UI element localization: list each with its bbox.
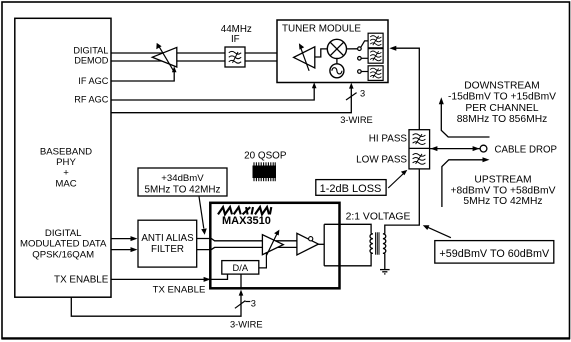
svg-text:3: 3 xyxy=(251,299,256,309)
logo: MAXIM xyxy=(218,207,271,227)
svg-text:MAC: MAC xyxy=(55,178,76,189)
op-amp: tuner RF amplifier xyxy=(294,43,315,71)
svg-text:3-WIRE: 3-WIRE xyxy=(230,319,263,329)
svg-text:2:1 VOLTAGE: 2:1 VOLTAGE xyxy=(346,212,411,223)
svg-text:MODULATED DATA: MODULATED DATA xyxy=(20,238,107,249)
filter: SAW filter 2 xyxy=(368,49,383,64)
svg-text:PER CHANNEL: PER CHANNEL xyxy=(465,103,539,114)
svg-text:+8dBmV TO +58dBmV: +8dBmV TO +58dBmV xyxy=(451,185,556,196)
wire: digital demod differential pair xyxy=(111,53,296,61)
svg-text:D/A: D/A xyxy=(233,263,249,273)
svg-text:UPSTREAM: UPSTREAM xyxy=(474,175,531,186)
callout: +59dBmV box xyxy=(423,225,554,263)
wire: upstream flow arrow xyxy=(442,157,490,207)
wire: amp output rails xyxy=(318,224,371,265)
svg-text:DIGITAL: DIGITAL xyxy=(73,45,108,55)
filter: diplexer hi pass / low pass xyxy=(356,130,429,169)
svg-text:TX ENABLE: TX ENABLE xyxy=(153,285,206,296)
wire: tuner amp to mixer xyxy=(315,49,327,57)
D/A converter xyxy=(222,252,267,274)
wire: transformer secondary to low pass filter xyxy=(385,169,420,234)
wire: tuner 3-wire bus xyxy=(111,83,373,125)
svg-text:5MHz TO 42MHz: 5MHz TO 42MHz xyxy=(145,184,221,195)
svg-text:3-WIRE: 3-WIRE xyxy=(340,115,373,125)
svg-text:+: + xyxy=(63,168,69,179)
svg-text:+59dBmV TO 60dBmV: +59dBmV TO 60dBmV xyxy=(439,248,550,260)
baseband PHY/MAC block U2 xyxy=(15,18,111,297)
svg-text:TX ENABLE: TX ENABLE xyxy=(54,275,109,286)
wire: filter to MAX3510 differential traces xyxy=(197,239,297,250)
local oscillator xyxy=(330,59,344,78)
svg-text:-15dBmV TO +15dBmV: -15dBmV TO +15dBmV xyxy=(448,92,556,103)
label: 2:1 voltage transformer ratio xyxy=(346,212,411,223)
svg-text:20 QSOP: 20 QSOP xyxy=(244,151,287,162)
svg-text:FILTER: FILTER xyxy=(151,244,184,255)
svg-text:88MHz TO 856MHz: 88MHz TO 856MHz xyxy=(457,114,548,125)
wire: TX enable xyxy=(111,274,228,296)
wire: cable drop connection xyxy=(430,146,480,151)
op-amp: IF variable gain amplifier xyxy=(152,43,177,71)
svg-text:ANTI ALIAS: ANTI ALIAS xyxy=(141,233,194,244)
svg-text:3: 3 xyxy=(360,89,365,99)
svg-text:1-2dB LOSS: 1-2dB LOSS xyxy=(320,183,382,195)
svg-text:+34dBmV: +34dBmV xyxy=(161,173,204,184)
svg-text:CABLE DROP: CABLE DROP xyxy=(495,145,557,156)
wire: hi-pass to tuner filters xyxy=(389,46,419,130)
callout: 1-2dB loss xyxy=(316,170,408,195)
wire: IF AGC xyxy=(111,66,177,81)
tuner module block xyxy=(277,20,388,83)
op-amp: MAX3510 variable gain amp xyxy=(262,230,283,256)
wire: D/A 3-wire bus xyxy=(71,274,262,329)
svg-text:IF AGC: IF AGC xyxy=(78,76,108,86)
ground xyxy=(380,253,390,274)
svg-text:5MHz TO 42MHz: 5MHz TO 42MHz xyxy=(463,196,542,207)
label: downstream levels xyxy=(448,81,556,125)
op-amp: MAX3510 output driver xyxy=(297,233,319,255)
wire: RF AGC xyxy=(111,82,317,100)
svg-text:IF: IF xyxy=(231,34,240,45)
filter FL1: 44MHz IF bandpass xyxy=(221,24,252,67)
wire: downstream flow arrow xyxy=(439,97,490,137)
wire: data lines into anti alias filter xyxy=(111,236,138,252)
svg-text:HI PASS: HI PASS xyxy=(369,134,408,145)
label: upstream levels xyxy=(451,175,556,208)
IC U1: MAX3510 block xyxy=(210,203,339,288)
mixer xyxy=(327,39,346,58)
label: 20 QSOP package xyxy=(244,151,287,182)
switch S1 contacts xyxy=(358,41,369,73)
svg-text:DEMOD: DEMOD xyxy=(74,55,109,65)
svg-text:PHY: PHY xyxy=(56,157,76,168)
filter: anti alias xyxy=(138,220,197,267)
wire: mixer to switch xyxy=(347,48,358,50)
transformer T1 xyxy=(370,232,386,254)
svg-text:DOWNSTREAM: DOWNSTREAM xyxy=(464,81,540,92)
svg-text:MAX3510: MAX3510 xyxy=(222,215,271,227)
callout: +34dBmV box xyxy=(138,168,227,235)
filter: SAW filter 3 xyxy=(368,66,383,81)
svg-text:LOW PASS: LOW PASS xyxy=(356,155,407,166)
svg-text:RF AGC: RF AGC xyxy=(74,94,109,104)
svg-text:QPSK/16QAM: QPSK/16QAM xyxy=(32,250,94,261)
filter: SAW filter 1 xyxy=(368,33,383,48)
node: cable drop terminal xyxy=(480,145,557,156)
svg-text:TUNER MODULE: TUNER MODULE xyxy=(282,24,361,35)
svg-text:BASEBAND: BASEBAND xyxy=(40,146,92,157)
